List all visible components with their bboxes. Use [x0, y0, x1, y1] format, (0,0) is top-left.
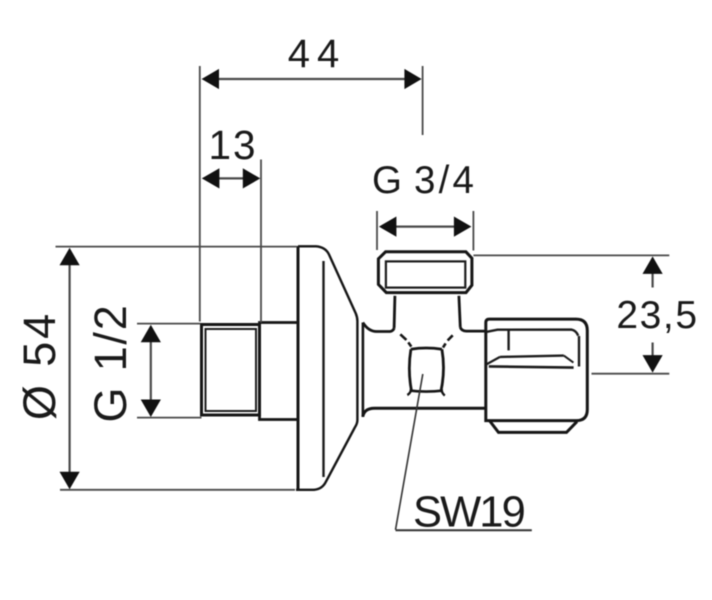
dimension 44 line: [218, 78, 406, 80]
dimension G 1/2 top extension line: [137, 323, 201, 325]
dimension 23,5 top arrowhead: [643, 256, 663, 274]
dimension G 1/2 bottom extension line: [137, 417, 202, 419]
dimension 23,5 top arrow stem: [651, 272, 653, 288]
svg-text:23,5: 23,5: [616, 294, 698, 337]
dimension diameter 54 bottom extension line: [60, 489, 295, 491]
spindle hex SW19 bottom edge: [410, 391, 444, 392]
dimension 23,5 top extension line: [473, 254, 669, 256]
outlet neck left line: [393, 296, 397, 328]
dimension 13 line: [219, 177, 243, 179]
dimension G 1/2 line: [150, 341, 152, 400]
svg-text:SW19: SW19: [413, 489, 525, 537]
bonnet transition stroke upper-right: [448, 335, 453, 340]
spindle hex SW19 top edge: [411, 348, 442, 349]
compression nut chamfer band left diagonal: [486, 357, 500, 365]
SW19 leader underline: [396, 529, 532, 531]
compression nut top face corner line: [507, 330, 509, 350]
G 1/2 male thread inner rectangle: [206, 329, 257, 411]
wall flange left face: [297, 246, 300, 490]
wall flange bottom edge and cone: [296, 420, 357, 490]
compression nut top face rear edge: [486, 330, 578, 336]
G 3/4 thread cap inner rectangle: [386, 261, 465, 287]
G 3/4 thread cap octagon: [378, 252, 472, 293]
dimension G 1/2 top arrowhead: [141, 325, 161, 343]
dimension 13 left arrowhead: [202, 168, 220, 188]
dimension 23,5 bottom arrowhead: [643, 355, 663, 373]
dimension diameter 54 bottom arrowhead: [60, 472, 80, 490]
body barrel top edge right segment: [460, 327, 486, 331]
compression nut outer outline: [486, 319, 588, 421]
SW19 leader line: [396, 374, 423, 530]
spindle bottom flare right: [441, 391, 444, 396]
dimension diameter 54 top arrowhead: [60, 248, 80, 265]
svg-text:44: 44: [288, 32, 347, 76]
svg-text:Ø 54: Ø 54: [14, 311, 65, 420]
dimension G 3/4 left extension line: [376, 211, 378, 250]
outlet neck right line: [459, 296, 460, 328]
wall flange rim rear line: [362, 323, 365, 418]
bonnet transition stroke lower-right: [443, 343, 446, 347]
dimension 44 right extension line: [422, 66, 424, 135]
spindle bottom flare left: [407, 391, 411, 395]
bonnet transition stroke lower-left: [408, 342, 411, 346]
dimension G 3/4 right extension line: [472, 211, 474, 251]
svg-text:13: 13: [208, 122, 257, 168]
body barrel bottom edge: [363, 408, 486, 416]
dimension 44 left arrowhead: [202, 69, 219, 89]
spindle hex SW19 left side: [409, 349, 411, 390]
svg-text:G 3/4: G 3/4: [372, 159, 477, 202]
bonnet transition stroke upper-left: [400, 334, 406, 340]
dimension 23,5 bottom arrow stem: [651, 343, 653, 358]
body barrel top edge left segment: [363, 323, 394, 332]
dimension 13 right arrowhead: [243, 168, 260, 188]
svg-text:G 1/2: G 1/2: [85, 303, 136, 422]
compression nut bottom skirt: [490, 421, 578, 433]
dimension G 1/2 bottom arrowhead: [141, 400, 161, 418]
compression nut chamfer band upper line: [500, 356, 564, 357]
dimension G 3/4 line: [395, 226, 455, 228]
compression nut chamfer band right diagonal: [564, 356, 574, 363]
inlet collar: [260, 323, 299, 420]
wall flange top edge and cone: [298, 246, 357, 420]
compression nut chamfer band lower line: [489, 366, 574, 367]
spindle hex SW19 right side: [441, 349, 443, 390]
dimension diameter 54 top extension line: [56, 246, 298, 248]
dimension diameter 54 line: [68, 264, 70, 472]
G 1/2 male thread outer rectangle: [202, 325, 260, 416]
dimension 13 right extension line: [260, 160, 262, 323]
dimension 44 left extension line: [199, 66, 201, 322]
compression nut right inner edge: [578, 336, 580, 367]
dimension G 3/4 left arrowhead: [379, 217, 397, 237]
dimension 23,5 bottom extension line: [592, 373, 670, 375]
wall flange inner shading line: [322, 261, 324, 477]
dimension G 3/4 right arrowhead: [454, 217, 472, 237]
dimension 44 right arrowhead: [404, 69, 421, 89]
